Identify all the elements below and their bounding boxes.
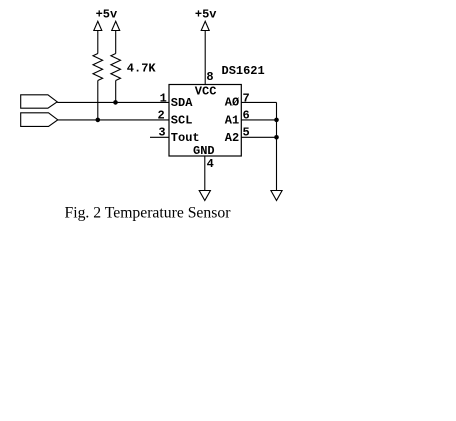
pin name SCL: [171, 113, 193, 127]
IC U1 DS1621 body: [169, 85, 241, 157]
svg-text:1: 1: [160, 92, 167, 106]
wire: pin 7 A0 to right bus: [241, 101, 276, 103]
wire: +5v arrow to resistor R2 top: [115, 31, 117, 54]
wire: pin 4 GND down: [204, 156, 206, 191]
pin number 4: [207, 157, 214, 171]
svg-text:4: 4: [207, 157, 214, 171]
connector J1 (SDA off-page flag): [21, 95, 58, 108]
+5V power symbol arrow (left wire 1): [94, 21, 102, 30]
wire: right bus vertical to ground: [276, 102, 278, 190]
connector J2 (SCL off-page flag): [21, 113, 58, 127]
ground (address pins bus): [271, 191, 282, 201]
pin number 8: [206, 70, 213, 84]
svg-text:Fig. 2 Temperature Sensor: Fig. 2 Temperature Sensor: [65, 204, 232, 221]
junction: A1 on bus: [274, 118, 279, 123]
svg-text:+5v: +5v: [96, 8, 118, 22]
junction: R2 on SDA line: [113, 100, 118, 105]
+5V power label (left): [96, 8, 118, 22]
ground (GND pin 4): [199, 191, 210, 201]
value label 4.7K: [127, 62, 157, 76]
pin number 6: [243, 108, 250, 122]
svg-text:Tout: Tout: [171, 131, 200, 145]
part label DS1621: [222, 64, 265, 78]
pin number 2: [158, 108, 165, 122]
svg-text:8: 8: [206, 70, 213, 84]
wire: pin 6 A1 to right bus: [241, 119, 276, 121]
wire: pin 5 A2 to right bus: [241, 136, 276, 138]
pin name A0: [225, 96, 239, 110]
pin number 5: [243, 126, 250, 140]
junction: A2 on bus: [274, 135, 279, 140]
+5V power symbol arrow (left wire 2): [112, 21, 120, 30]
wire: +5v to pin 8 VCC: [204, 31, 206, 85]
svg-text:7: 7: [243, 92, 250, 106]
+5V power label (right): [195, 8, 217, 22]
svg-text:A1: A1: [225, 113, 239, 127]
pin name SDA: [171, 96, 193, 110]
caption: Fig. 2 Temperature Sensor: [65, 204, 232, 221]
svg-text:4.7K: 4.7K: [127, 62, 157, 76]
svg-text:AØ: AØ: [225, 96, 239, 110]
svg-text:SDA: SDA: [171, 96, 193, 110]
pin number 3: [158, 126, 165, 140]
resistor R2 (4.7K pullup on SDA): [111, 54, 121, 81]
pin name A2: [225, 131, 239, 145]
pin number 1: [160, 92, 167, 106]
wire: resistor R2 bottom down to SDA line: [115, 81, 117, 103]
wire: SDA net from connector J1 to pin 1: [57, 101, 169, 103]
pin name GND: [193, 144, 215, 158]
wire: Tout stub to pin 3: [150, 136, 169, 138]
pin name VCC: [195, 85, 217, 99]
+5V power symbol arrow (VCC): [201, 21, 209, 30]
svg-text:A2: A2: [225, 131, 239, 145]
svg-text:+5v: +5v: [195, 8, 217, 22]
pin name Tout: [171, 131, 200, 145]
svg-text:2: 2: [158, 108, 165, 122]
svg-text:VCC: VCC: [195, 85, 217, 99]
pin name A1: [225, 113, 239, 127]
pin number 7: [243, 92, 250, 106]
wire: resistor R1 bottom down to SCL line: [97, 81, 99, 120]
resistor R1 (4.7K pullup on SCL): [93, 54, 103, 81]
svg-text:SCL: SCL: [171, 113, 193, 127]
svg-text:DS1621: DS1621: [222, 64, 265, 78]
wire: SCL net from connector J2 to pin 2: [58, 119, 169, 121]
wire: +5v arrow to resistor R1 top: [97, 31, 99, 54]
svg-text:GND: GND: [193, 144, 215, 158]
svg-text:3: 3: [158, 126, 165, 140]
junction: R1 on SCL line: [96, 118, 101, 123]
